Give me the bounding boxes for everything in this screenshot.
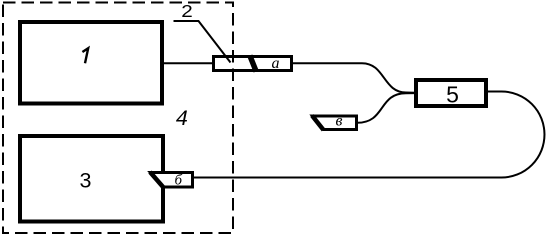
svg-text:в: в [336, 113, 343, 130]
wire attenuator a to node at block 5 input [291, 63, 415, 93]
block 1 [20, 22, 162, 104]
wire block1 to attenuator a [162, 62, 214, 64]
block 5 [416, 80, 486, 106]
attenuator a diagonal band [250, 56, 256, 72]
wire tag v to node at block 5 input [357, 93, 415, 123]
dashed enclosure 4 [3, 3, 233, 234]
tag v body [313, 116, 357, 130]
svg-text:а: а [272, 55, 280, 72]
leader line for 2 [174, 21, 231, 63]
wire block5 output loop to tag b [194, 92, 544, 178]
svg-text:б: б [175, 173, 183, 189]
attenuator a body [214, 57, 292, 71]
svg-text:3: 3 [80, 168, 92, 192]
tag v slant edge thick [312, 116, 324, 131]
tag b body [151, 173, 193, 188]
svg-text:5: 5 [446, 81, 459, 107]
label 1 [82, 48, 88, 63]
svg-text:2: 2 [181, 1, 193, 21]
tag b slant edge thick [150, 172, 164, 188]
svg-text:4: 4 [176, 106, 188, 130]
block 3 [20, 136, 163, 222]
